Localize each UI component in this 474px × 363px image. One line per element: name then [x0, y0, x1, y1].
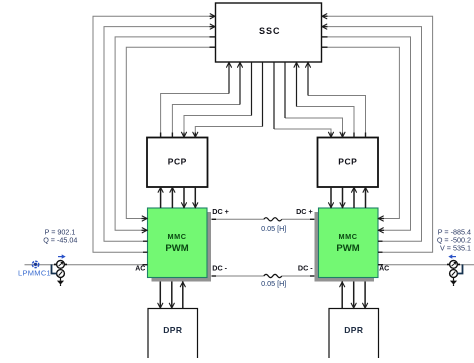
svg-text:PCP: PCP: [338, 156, 357, 166]
svg-text:DPR: DPR: [344, 325, 363, 335]
svg-text:PCP: PCP: [168, 156, 187, 166]
svg-text:PWM: PWM: [165, 243, 188, 254]
svg-text:MMC: MMC: [168, 232, 187, 241]
svg-text:0.05 [H]: 0.05 [H]: [261, 224, 286, 233]
svg-text:0.05 [H]: 0.05 [H]: [261, 279, 286, 288]
svg-text:AC: AC: [379, 266, 389, 273]
svg-text:PWM: PWM: [336, 243, 359, 254]
svg-text:V = 535.1: V = 535.1: [440, 243, 471, 252]
svg-text:MMC: MMC: [339, 232, 358, 241]
svg-text:DC -: DC -: [212, 264, 227, 273]
svg-text:DPR: DPR: [163, 325, 182, 335]
svg-text:AC: AC: [135, 266, 145, 273]
svg-text:DC +: DC +: [296, 207, 313, 216]
svg-text:DC +: DC +: [212, 207, 229, 216]
svg-text:Q = -45.04: Q = -45.04: [43, 235, 77, 244]
svg-text:LPMMC1: LPMMC1: [18, 269, 51, 278]
svg-text:SSC: SSC: [259, 26, 281, 36]
svg-text:DC -: DC -: [298, 264, 313, 273]
